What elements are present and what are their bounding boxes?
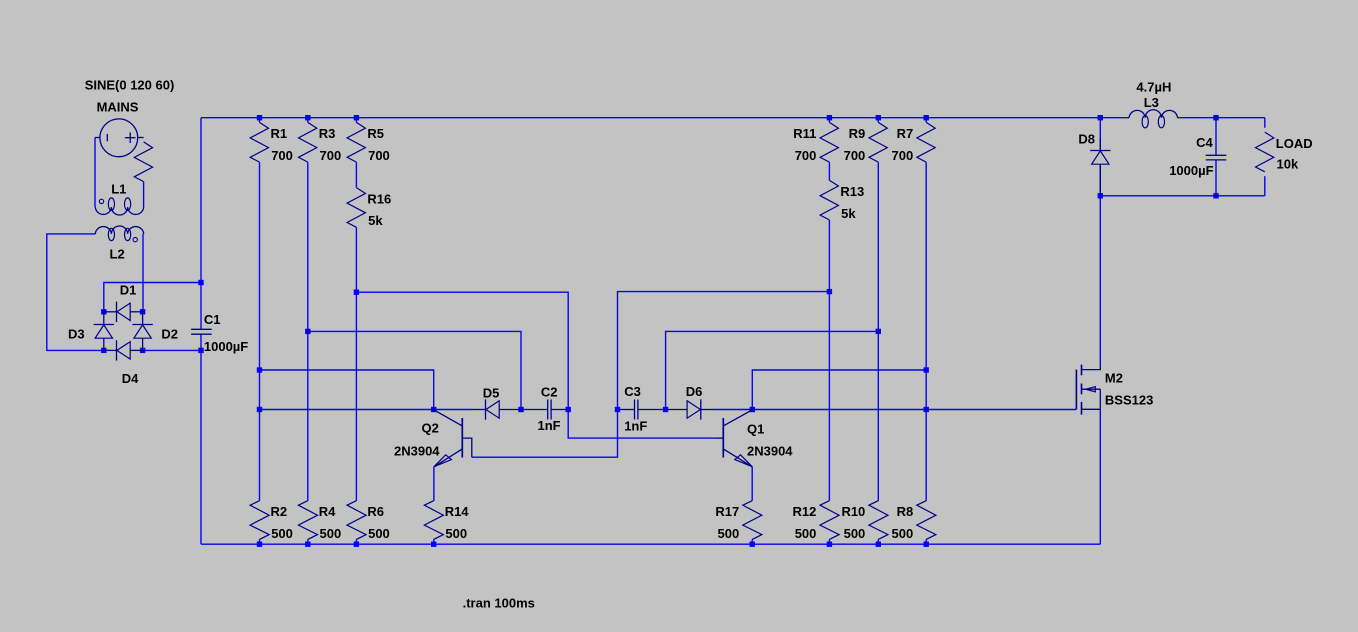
resistor R1 xyxy=(250,122,293,163)
wire R9-R10 column xyxy=(877,118,879,544)
wire L2 left lead to bridge LB xyxy=(47,234,104,351)
node bottom rail R12 xyxy=(827,542,832,547)
node R1 col y370 xyxy=(257,367,262,372)
resistor R8 xyxy=(891,501,935,541)
node top rail D8 xyxy=(1098,115,1103,120)
wire D8 column lower xyxy=(1099,165,1101,196)
nmos M2 xyxy=(1076,364,1153,415)
node top rail R7 xyxy=(924,115,929,120)
svg-text:D6: D6 xyxy=(686,384,703,399)
node top rail C4 xyxy=(1213,115,1218,120)
svg-text:R9: R9 xyxy=(849,126,866,141)
node R7 col y370 xyxy=(924,367,929,372)
resistor R10 xyxy=(841,501,888,541)
wire R1-R2 column xyxy=(259,118,261,544)
node bottom rail R10 xyxy=(876,542,881,547)
node bottom rail R4 xyxy=(305,542,310,547)
node top rail R1 xyxy=(257,115,262,120)
svg-text:500: 500 xyxy=(891,526,913,541)
wire LOAD column lower xyxy=(1264,176,1266,196)
wire R11-R13-R12 column xyxy=(828,118,830,544)
wire Q1 collector to R7 column via y=370 xyxy=(752,370,926,410)
svg-text:500: 500 xyxy=(445,526,467,541)
node top rail R9 xyxy=(876,115,881,120)
svg-text:500: 500 xyxy=(844,526,866,541)
node R7 col y409 xyxy=(924,407,929,412)
wire C4 column lower xyxy=(1215,160,1217,196)
svg-text:C2: C2 xyxy=(541,384,558,399)
svg-text:SINE(0 120 60): SINE(0 120 60) xyxy=(85,77,175,92)
node C1 top xyxy=(198,280,203,285)
svg-text:10k: 10k xyxy=(1277,157,1299,172)
resistor R6 xyxy=(347,501,390,541)
svg-text:R6: R6 xyxy=(367,504,384,519)
resistor R16 xyxy=(347,188,391,229)
svg-text:500: 500 xyxy=(320,526,342,541)
svg-text:D3: D3 xyxy=(68,327,85,342)
diode D4 xyxy=(104,340,143,386)
resistor R2 xyxy=(250,501,293,541)
node C3 left xyxy=(615,407,620,412)
svg-text:500: 500 xyxy=(795,526,817,541)
node R1 col y409 xyxy=(257,407,262,412)
wire R16 bottom to C2 right and Q1 base xyxy=(356,292,713,438)
svg-text:700: 700 xyxy=(271,148,293,163)
svg-text:700: 700 xyxy=(795,148,817,163)
svg-text:M2: M2 xyxy=(1105,371,1123,386)
node bottom rail R6 xyxy=(354,542,359,547)
svg-text:Q2: Q2 xyxy=(422,421,439,436)
svg-text:BSS123: BSS123 xyxy=(1105,393,1153,408)
svg-text:D2: D2 xyxy=(161,326,178,341)
node R13 bottom xyxy=(827,289,832,294)
svg-text:4.7µH: 4.7µH xyxy=(1136,80,1171,95)
wire R17 column below Q1 emitter xyxy=(751,467,753,545)
wire D8 column upper xyxy=(1099,118,1101,151)
wire bridge RB to C1 column xyxy=(143,349,201,351)
node C3 right D6 anode xyxy=(663,407,668,412)
wire bridge LT up to C1 column xyxy=(104,283,201,312)
capacitor C1 xyxy=(191,312,248,354)
wire R14 column below Q2 emitter xyxy=(433,467,435,545)
resistor R5 xyxy=(347,122,390,163)
wire R3-R4 column xyxy=(307,118,309,544)
svg-text:D1: D1 xyxy=(120,283,137,298)
wire R1 column to Q2 collector via y=370 xyxy=(260,370,434,410)
svg-text:D5: D5 xyxy=(483,385,500,400)
node D8 bottom xyxy=(1098,193,1103,198)
svg-text:R8: R8 xyxy=(897,504,914,519)
wire MAINS left lead down to L1 xyxy=(94,138,96,208)
transistor Q2 xyxy=(394,410,472,467)
svg-text:R2: R2 xyxy=(271,504,288,519)
diode D6 xyxy=(666,384,714,420)
resistor (source series, unlabeled) xyxy=(134,142,152,182)
diode D2 xyxy=(132,312,178,351)
wire bottom rail xyxy=(201,543,1100,545)
wire R7-R8 column xyxy=(925,118,927,544)
node bridge LB xyxy=(101,348,106,353)
svg-text:Q1: Q1 xyxy=(747,422,764,437)
node R3 col y331 xyxy=(305,329,310,334)
wire R3 column to D5 cathode / C2 left xyxy=(308,331,521,409)
wire D5 to C2 xyxy=(521,409,528,411)
resistor R3 xyxy=(299,122,342,163)
resistor R9 xyxy=(844,122,888,163)
node top rail R3 xyxy=(305,115,310,120)
svg-text:L1: L1 xyxy=(111,182,126,197)
svg-text:R10: R10 xyxy=(841,504,865,519)
svg-text:1nF: 1nF xyxy=(538,418,561,433)
svg-text:D4: D4 xyxy=(122,371,139,386)
svg-text:R7: R7 xyxy=(897,126,914,141)
wire top rail right of L3 xyxy=(1178,117,1265,119)
svg-text:R16: R16 xyxy=(367,191,391,206)
node Q1 collector xyxy=(750,407,755,412)
wire Q1 collector row to M2 gate xyxy=(752,409,1076,411)
svg-text:500: 500 xyxy=(271,526,293,541)
svg-text:R3: R3 xyxy=(319,126,336,141)
svg-text:LOAD: LOAD xyxy=(1276,136,1313,151)
svg-text:C1: C1 xyxy=(204,312,221,327)
wire R13 bottom to C3 left and Q2 base xyxy=(472,292,830,458)
wire L2 right lead down to bridge RT xyxy=(142,234,144,312)
svg-text:R11: R11 xyxy=(793,126,816,141)
wire LOAD column upper xyxy=(1264,118,1266,128)
svg-text:R5: R5 xyxy=(367,126,384,141)
resistor R13 xyxy=(820,180,864,221)
wire C1 column upper xyxy=(200,118,202,330)
wire output bottom rail xyxy=(1100,195,1265,197)
capacitor C2 xyxy=(528,384,568,433)
diode D1 xyxy=(104,283,143,322)
node C1 bottom xyxy=(198,348,203,353)
svg-text:.tran 100ms: .tran 100ms xyxy=(463,596,535,611)
wire C1 column lower xyxy=(200,334,202,544)
capacitor C4 xyxy=(1169,135,1226,178)
node Q2 collector xyxy=(431,407,436,412)
svg-text:R17: R17 xyxy=(715,504,739,519)
node D5 cathode C2 left xyxy=(518,407,523,412)
diode D5 xyxy=(473,385,521,419)
svg-text:700: 700 xyxy=(844,148,866,163)
node bottom rail R14 xyxy=(431,542,436,547)
svg-text:1000µF: 1000µF xyxy=(204,339,248,354)
voltage source MAINS xyxy=(85,77,175,156)
capacitor C3 xyxy=(619,384,659,434)
svg-text:700: 700 xyxy=(320,148,342,163)
node bottom rail R17 xyxy=(750,542,755,547)
svg-text:R14: R14 xyxy=(445,504,470,519)
node bottom rail R2 xyxy=(257,542,262,547)
node R9 col y331 xyxy=(876,329,881,334)
node top rail R5 xyxy=(354,115,359,120)
svg-text:700: 700 xyxy=(368,148,390,163)
resistor R11 xyxy=(793,122,838,163)
transistor Q1 xyxy=(714,410,794,467)
resistor R7 xyxy=(891,122,935,163)
resistor R12 xyxy=(793,501,840,541)
node bridge LT xyxy=(101,309,106,314)
svg-text:2N3904: 2N3904 xyxy=(394,444,440,459)
node bridge RT xyxy=(140,309,145,314)
svg-text:MAINS: MAINS xyxy=(97,99,139,114)
node bridge RB xyxy=(140,348,145,353)
svg-text:500: 500 xyxy=(717,526,739,541)
svg-text:R12: R12 xyxy=(793,504,817,519)
svg-text:R13: R13 xyxy=(840,184,864,199)
resistor R4 xyxy=(298,501,341,541)
svg-text:R1: R1 xyxy=(271,126,288,141)
svg-text:L3: L3 xyxy=(1144,95,1159,110)
svg-text:1nF: 1nF xyxy=(624,419,647,434)
node C4 bottom xyxy=(1213,193,1218,198)
spice directive .tran xyxy=(463,596,535,611)
wire C3 to D6 xyxy=(659,409,666,411)
svg-text:700: 700 xyxy=(891,148,913,163)
wire D6 to Q1 collector xyxy=(714,409,753,411)
svg-text:C4: C4 xyxy=(1196,135,1213,150)
inductor L3 xyxy=(1129,80,1177,128)
node top rail R11 xyxy=(827,115,832,120)
svg-text:C3: C3 xyxy=(624,384,641,399)
resistor LOAD xyxy=(1256,132,1313,172)
wire R1 column to D5 anode row xyxy=(260,409,473,411)
svg-text:2N3904: 2N3904 xyxy=(747,444,793,459)
node bottom rail R8 xyxy=(924,542,929,547)
wire C4 column upper xyxy=(1215,118,1217,156)
resistor R14 xyxy=(424,501,469,541)
svg-text:500: 500 xyxy=(368,526,390,541)
wire R5-R16-R6 column xyxy=(355,118,357,544)
node C2 right xyxy=(566,407,571,412)
resistor R17 xyxy=(715,501,762,541)
inductor L2 (transformer secondary) xyxy=(95,226,143,262)
diode D3 xyxy=(68,312,114,351)
svg-text:5k: 5k xyxy=(841,206,856,221)
diode D8 xyxy=(1078,132,1110,196)
svg-text:5k: 5k xyxy=(368,213,383,228)
wire D8 junction down to M2 drain xyxy=(1099,196,1101,364)
svg-text:1000µF: 1000µF xyxy=(1169,163,1213,178)
wire M2 source down to bottom rail xyxy=(1099,414,1101,544)
svg-text:R4: R4 xyxy=(319,504,336,519)
wire top rail left of L3 xyxy=(201,117,1129,119)
wire series resistor to L1 right lead xyxy=(143,182,145,207)
wire R9 column to C3 right / D6 anode xyxy=(666,331,879,409)
svg-text:L2: L2 xyxy=(110,247,125,262)
node R16 bottom xyxy=(354,290,359,295)
svg-text:D8: D8 xyxy=(1078,132,1095,147)
inductor L1 (transformer primary) xyxy=(95,182,143,215)
